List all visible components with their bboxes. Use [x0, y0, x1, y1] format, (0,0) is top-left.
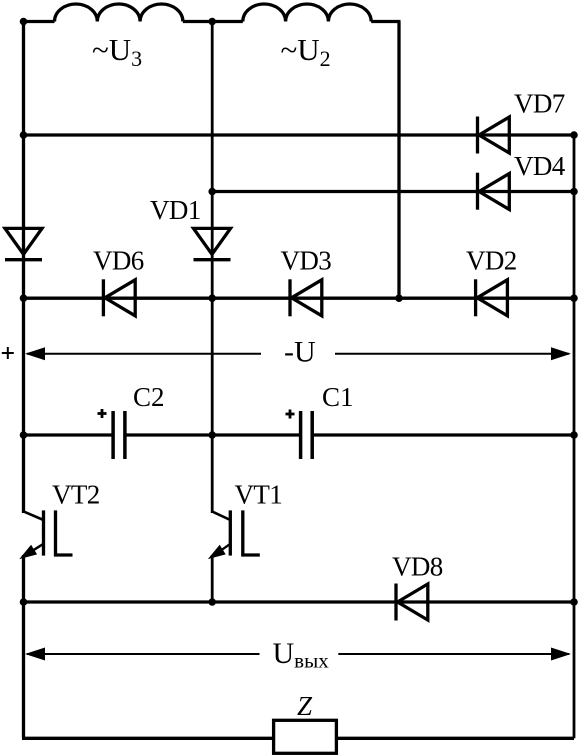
- wire: third vertical from coil U2 down to diode row: [397, 22, 400, 299]
- wire: top horizontal right segment: [371, 20, 400, 23]
- wire: bottom horizontal right of Z: [336, 737, 574, 740]
- wire: capacitor row right of C1: [312, 433, 574, 436]
- wire: left vertical bus V1 upper: [22, 22, 25, 514]
- svg-text:-U: -U: [284, 336, 316, 369]
- dimension line Uvyh left segment with arrow: [27, 653, 260, 655]
- diode VD2: [474, 279, 477, 316]
- wire: diode row horizontal line y=298.2: [24, 297, 575, 300]
- wire: top horizontal left segment: [22, 20, 55, 23]
- svg-text:VD3: VD3: [281, 245, 332, 275]
- dimension line -U right segment with arrow: [335, 353, 569, 355]
- svg-text:VD7: VD7: [514, 89, 565, 119]
- wire: VD7 horizontal line y=135: [24, 133, 575, 136]
- transistor VT2 (IGBT on left bus): [24, 510, 73, 556]
- wire: left vertical bus V1 lower: [22, 555, 25, 738]
- diode VD8: [394, 584, 397, 621]
- diode VD1 (on second bus, pointing down): [194, 228, 231, 254]
- capacitor C1 plates: [299, 411, 303, 459]
- wire: second vertical bus V2 lower: [211, 555, 214, 603]
- svg-text:~U3: ~U3: [92, 32, 142, 71]
- plus sign at left of -U line: [2, 347, 14, 359]
- wire: VD4 horizontal line y=191.5: [212, 190, 574, 193]
- wire: capacitor row between C2 and C1: [125, 433, 301, 436]
- svg-text:VT1: VT1: [235, 480, 283, 510]
- dimension line Uvyh right segment with arrow: [338, 653, 569, 655]
- svg-text:~U2: ~U2: [281, 32, 331, 71]
- wire: VD8 horizontal line y=602: [24, 600, 575, 603]
- junction node dots: [20, 18, 578, 606]
- diode VD6: [102, 279, 105, 316]
- diode VD3: [288, 279, 291, 316]
- plus sign of C2: [98, 409, 107, 418]
- wire: right vertical bus V4: [573, 135, 576, 738]
- svg-text:Z: Z: [297, 691, 313, 721]
- load resistor Z box: [274, 720, 337, 753]
- wire: second vertical bus V2 upper: [211, 22, 214, 514]
- svg-text:VD8: VD8: [392, 551, 443, 581]
- diode VD4: [476, 173, 479, 210]
- inductor winding ~U2: [243, 4, 371, 22]
- svg-text:Uвых: Uвых: [273, 637, 330, 672]
- transistor VT1 (IGBT on second bus): [212, 510, 260, 556]
- svg-text:C2: C2: [133, 382, 165, 412]
- dimension line -U left segment with arrow: [27, 353, 261, 355]
- diode VD5 (unlabeled, on left bus, pointing down): [5, 228, 42, 254]
- wire: capacitor row left of C2: [24, 433, 114, 436]
- svg-text:VT2: VT2: [52, 480, 100, 510]
- plus sign of C1: [286, 410, 295, 419]
- svg-text:VD6: VD6: [93, 245, 144, 275]
- svg-text:VD4: VD4: [514, 151, 566, 181]
- svg-text:VD1: VD1: [150, 195, 201, 225]
- svg-text:VD2: VD2: [466, 245, 517, 275]
- wire: bottom horizontal left of Z: [22, 737, 274, 740]
- svg-text:C1: C1: [322, 382, 354, 412]
- inductor winding ~U3: [55, 4, 183, 22]
- diode VD7: [476, 117, 479, 154]
- wire: top horizontal middle segment: [183, 20, 243, 23]
- capacitor C2 plates: [111, 411, 115, 459]
